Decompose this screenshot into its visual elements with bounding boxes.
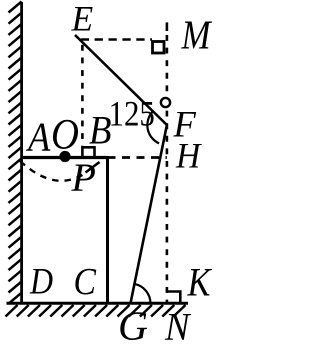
segment BH (dashed extension to H) [108, 156, 167, 159]
angle arc at G [135, 284, 151, 303]
svg-text:P: P [71, 155, 96, 200]
segment BC (vertical side of rectangle) [106, 156, 109, 303]
dashed fold arc from wall through P to B corner [20, 161, 87, 181]
degree symbol circle [161, 98, 170, 107]
right-angle square marker at M [153, 42, 165, 54]
wall hatching [9, 2, 22, 304]
floor (bottom horizontal line) [7, 302, 189, 305]
right-angle marker at N [167, 292, 180, 304]
dashed segment EM (horizontal) [81, 38, 152, 41]
svg-text:G: G [118, 303, 148, 345]
svg-text:C: C [74, 260, 97, 303]
segment EF (solid) [75, 35, 167, 125]
svg-text:D: D [29, 260, 53, 302]
svg-text:E: E [71, 0, 94, 39]
svg-text:H: H [175, 137, 202, 176]
svg-text:K: K [187, 261, 213, 305]
svg-text:125: 125 [109, 95, 155, 134]
dashed vertical from E down to AB line [81, 45, 84, 147]
dashed vertical MN : long top dash [166, 22, 169, 31]
svg-text:A: A [25, 115, 50, 160]
svg-text:N: N [164, 305, 192, 345]
svg-text:M: M [181, 13, 213, 58]
angle arc at F (125 degrees) [147, 112, 159, 143]
segment AB (solid, A on wall to B) [22, 156, 108, 159]
wall (left vertical line) [20, 2, 23, 305]
point O dot [59, 151, 70, 162]
svg-text:O: O [51, 111, 79, 158]
fold arc end tick [86, 162, 100, 173]
dashed vertical MN [166, 35, 169, 303]
segment FG (solid) [131, 125, 167, 303]
floor hatching [6, 305, 186, 317]
right-angle marker at foot of E-perpendicular (near B) [82, 147, 94, 157]
